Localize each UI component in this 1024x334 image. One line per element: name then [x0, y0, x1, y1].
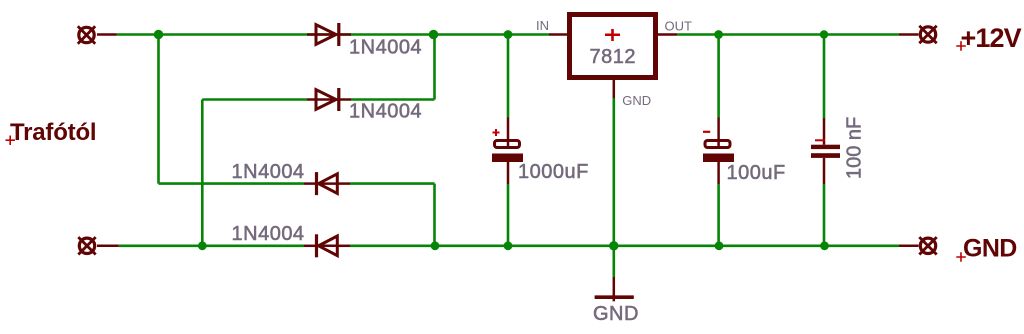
- svg-text:100uF: 100uF: [727, 162, 786, 184]
- svg-text:GND: GND: [963, 235, 1017, 263]
- svg-text:GND: GND: [622, 93, 651, 108]
- svg-text:1N4004: 1N4004: [232, 223, 305, 245]
- svg-text:+12V: +12V: [961, 23, 1022, 53]
- svg-text:IN: IN: [536, 18, 549, 33]
- svg-text:1N4004: 1N4004: [349, 37, 422, 59]
- svg-text:1N4004: 1N4004: [232, 161, 305, 183]
- svg-text:Trafótól: Trafótól: [10, 119, 96, 146]
- svg-text:7812: 7812: [590, 46, 637, 68]
- svg-text:100 nF: 100 nF: [844, 117, 866, 179]
- svg-text:1N4004: 1N4004: [349, 101, 422, 123]
- svg-text:OUT: OUT: [665, 19, 693, 34]
- svg-text:1000uF: 1000uF: [518, 161, 589, 183]
- svg-text:GND: GND: [593, 303, 639, 325]
